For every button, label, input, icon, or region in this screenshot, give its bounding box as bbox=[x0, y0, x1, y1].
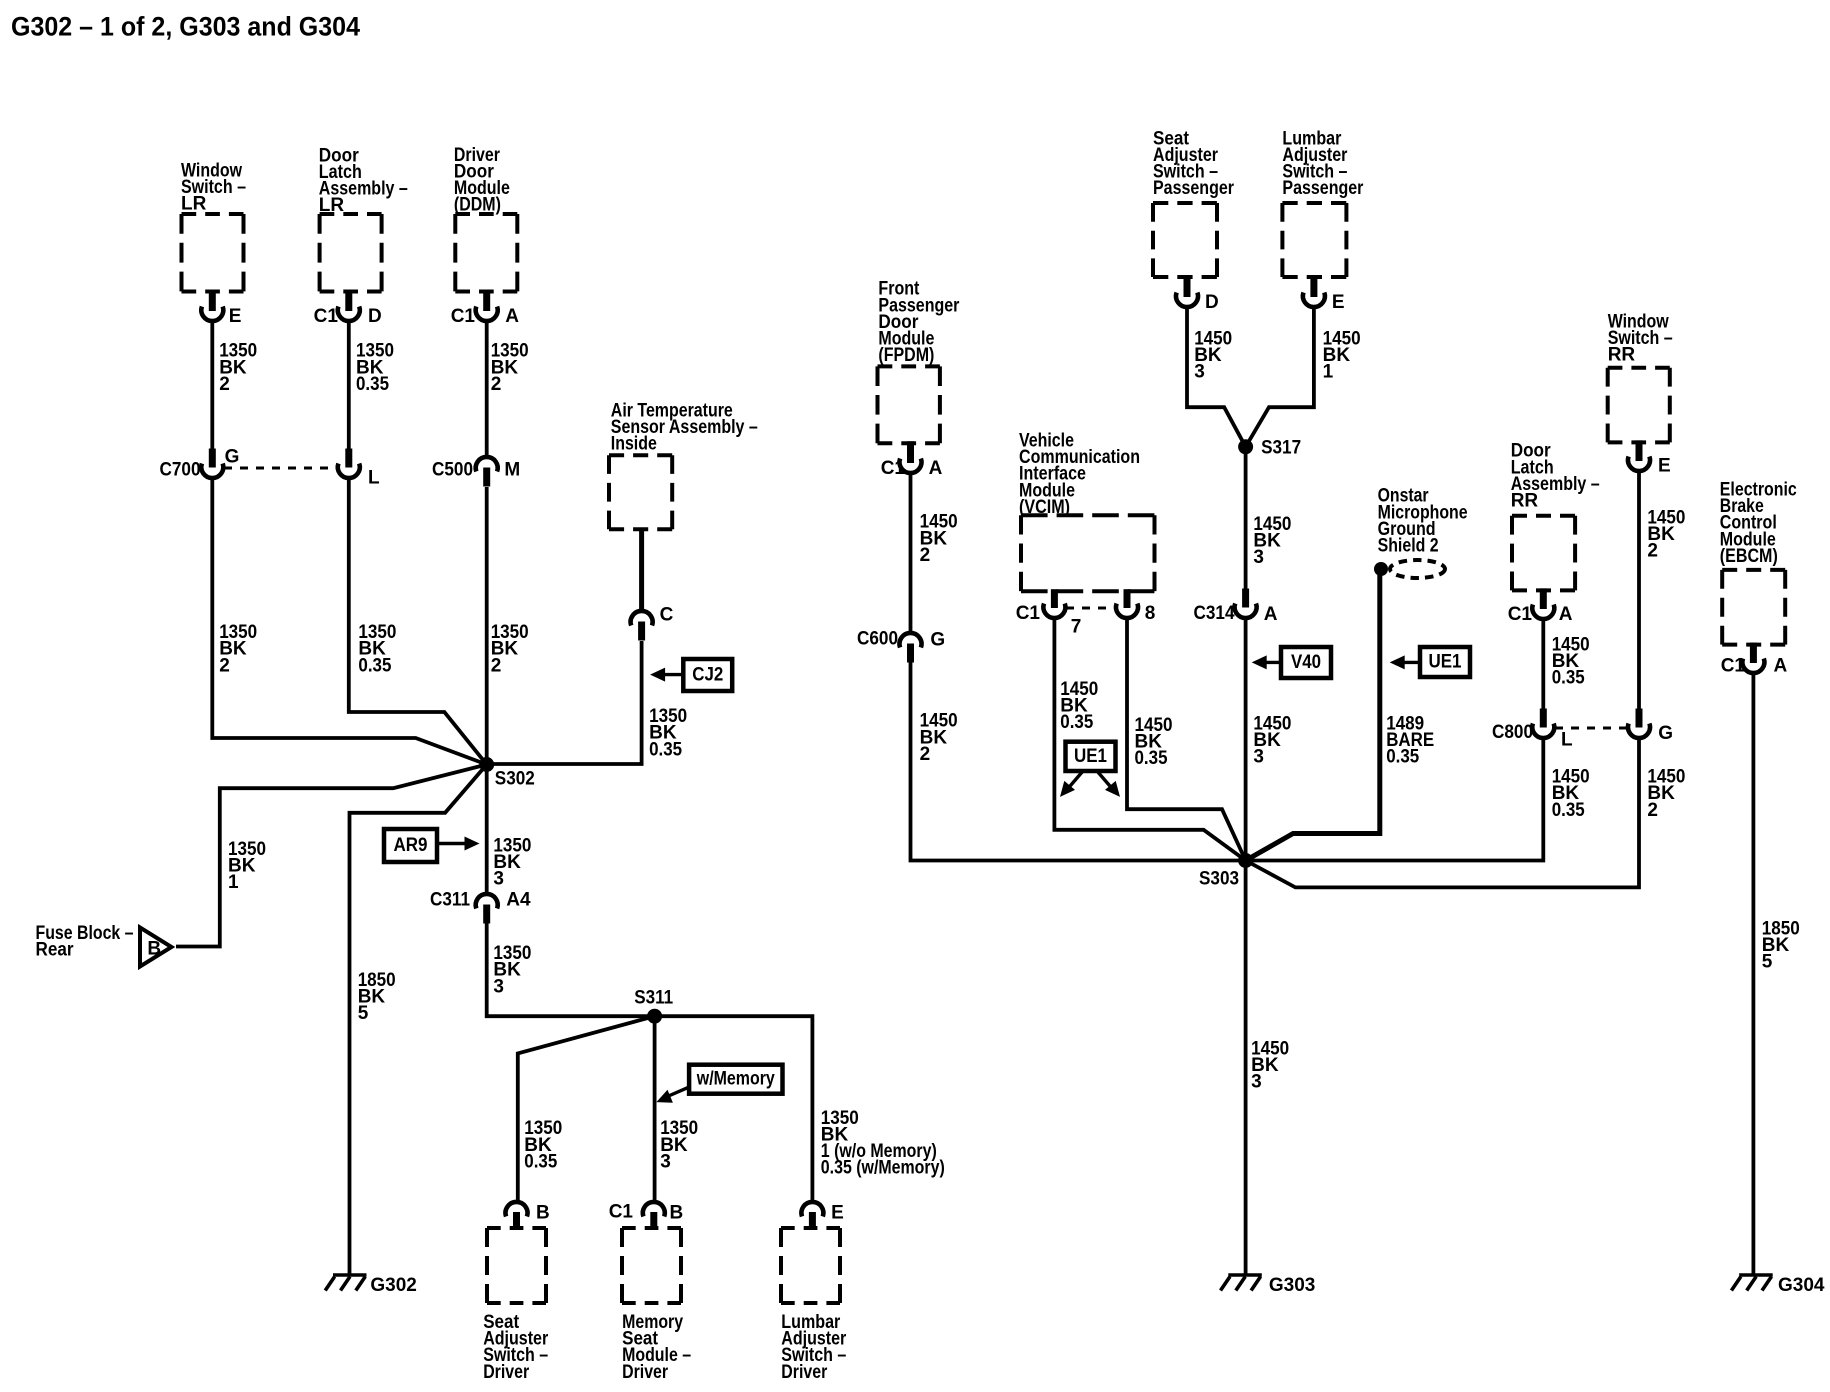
pin D of Seat Adjuster Passenger bbox=[1184, 275, 1191, 297]
module Air Temperature Sensor Assembly - Inside bbox=[609, 455, 672, 529]
svg-text:1: 1 bbox=[1323, 362, 1334, 383]
svg-text:G: G bbox=[225, 446, 240, 467]
module Vehicle Communication Interface Module (VCIM) bbox=[1021, 515, 1155, 591]
wire Door Latch D to L bbox=[347, 323, 351, 451]
pin C1-A of FPDM bbox=[907, 441, 914, 463]
flag AR9 bbox=[384, 829, 437, 862]
svg-text:3: 3 bbox=[493, 869, 504, 890]
module Electronic Brake Control Module (EBCM) bbox=[1722, 570, 1785, 645]
label 1350 BK 2 (below C500) bbox=[491, 622, 529, 676]
title bbox=[11, 12, 360, 42]
svg-text:A: A bbox=[929, 458, 943, 479]
svg-text:5: 5 bbox=[358, 1003, 369, 1024]
svg-text:3: 3 bbox=[1251, 1072, 1262, 1093]
pin C1-D of Door Latch LR bbox=[345, 290, 352, 312]
fuse block - rear terminal B bbox=[140, 928, 172, 967]
ground G302 bbox=[333, 1273, 367, 1276]
svg-text:0.35: 0.35 bbox=[649, 739, 682, 760]
svg-text:LR: LR bbox=[181, 194, 207, 215]
flag UE1 (vcim) bbox=[1066, 742, 1116, 771]
svg-text:3: 3 bbox=[493, 976, 504, 997]
svg-text:S317: S317 bbox=[1261, 437, 1301, 458]
module Seat Adjuster Switch - Driver bbox=[487, 1228, 546, 1303]
svg-text:G: G bbox=[930, 629, 945, 650]
svg-text:w/Memory: w/Memory bbox=[696, 1069, 775, 1090]
pin C1-A of EBCM bbox=[1750, 643, 1757, 663]
connector C314 pin A bbox=[1242, 589, 1249, 608]
svg-text:V40: V40 bbox=[1291, 652, 1321, 673]
ground G304 bbox=[1739, 1273, 1773, 1276]
label 1489 BARE 0.35 bbox=[1386, 713, 1434, 767]
label 1350 BK 2 (window) bbox=[219, 341, 257, 395]
pin E of Lumbar Adjuster Switch Driver bbox=[801, 1202, 823, 1217]
svg-text:0.35: 0.35 bbox=[358, 655, 391, 676]
svg-text:2: 2 bbox=[491, 374, 502, 395]
connector C800 pin L bbox=[1540, 709, 1547, 728]
label 1450 BK 3 (seat pass) bbox=[1194, 328, 1232, 382]
svg-text:C311: C311 bbox=[430, 889, 470, 910]
wire C311 to S311 and on to lumbar branch bbox=[487, 923, 813, 1200]
svg-text:C1: C1 bbox=[1721, 655, 1746, 676]
svg-text:S303: S303 bbox=[1199, 869, 1239, 890]
svg-text:2: 2 bbox=[920, 744, 931, 765]
module Lumbar Adjuster Switch - Passenger bbox=[1282, 203, 1346, 277]
svg-text:RR: RR bbox=[1608, 345, 1636, 366]
wire G to S303 bbox=[1246, 740, 1639, 887]
wire lumbar E to S317 bbox=[1246, 309, 1314, 447]
svg-text:C1: C1 bbox=[451, 306, 476, 327]
svg-text:0.35: 0.35 bbox=[1060, 712, 1093, 733]
wire S303 to G303 bbox=[1244, 861, 1248, 1275]
label 1350 BK 2 (ddm) bbox=[491, 341, 529, 395]
svg-text:0.35: 0.35 bbox=[1552, 800, 1585, 821]
wire S311 to memory seat module bbox=[653, 1016, 657, 1200]
connector C311 pin A4 bbox=[476, 894, 498, 909]
svg-text:E: E bbox=[831, 1202, 844, 1223]
pin E of Window Switch RR bbox=[1636, 440, 1643, 461]
label 1350 BK 3 (above C311) bbox=[493, 835, 531, 889]
svg-text:C600: C600 bbox=[857, 628, 898, 649]
label 1450 BK 3 (G303) bbox=[1251, 1038, 1289, 1092]
label 1450 BK 3 (below C314) bbox=[1253, 713, 1291, 767]
svg-text:2: 2 bbox=[219, 655, 230, 676]
svg-text:2: 2 bbox=[491, 655, 502, 676]
svg-text:G302 – 1 of 2, G303 and G304: G302 – 1 of 2, G303 and G304 bbox=[11, 12, 360, 42]
svg-text:G304: G304 bbox=[1778, 1275, 1825, 1296]
wire fuse block to S302 bbox=[176, 765, 487, 947]
svg-text:L: L bbox=[1561, 729, 1573, 750]
svg-text:1: 1 bbox=[228, 872, 239, 893]
svg-text:3: 3 bbox=[1253, 747, 1264, 768]
svg-text:0.35: 0.35 bbox=[1386, 747, 1419, 768]
wire S311 to seat adjuster switch driver bbox=[518, 1016, 655, 1200]
connector C (air temp) bbox=[631, 611, 653, 626]
label 1350 BK 1 bbox=[228, 839, 266, 893]
label 1850 BK 5 (G304) bbox=[1762, 918, 1800, 972]
flag V40 bbox=[1281, 647, 1331, 678]
pin C1-A of Door Latch RR bbox=[1540, 588, 1547, 609]
label 1350 BK 0.35 (below L) bbox=[358, 622, 396, 676]
svg-text:C: C bbox=[660, 604, 674, 625]
junction S311 bbox=[647, 1009, 662, 1024]
wire DDM A to C500 bbox=[485, 323, 489, 456]
svg-text:A4: A4 bbox=[506, 889, 531, 910]
module Door Latch Assembly - LR bbox=[320, 214, 382, 292]
svg-text:2: 2 bbox=[1647, 800, 1658, 821]
flag w/Memory bbox=[689, 1065, 782, 1094]
svg-text:2: 2 bbox=[219, 374, 230, 395]
svg-text:Inside: Inside bbox=[611, 434, 657, 455]
wire window RR E to G bbox=[1637, 473, 1641, 709]
wire C314 to S303 bbox=[1244, 620, 1248, 861]
svg-text:3: 3 bbox=[1253, 547, 1264, 568]
pin E of Lumbar Adjuster Passenger bbox=[1310, 275, 1317, 297]
svg-text:C500: C500 bbox=[432, 459, 473, 480]
svg-text:G302: G302 bbox=[370, 1275, 416, 1296]
wire Window E to C700 bbox=[210, 323, 214, 451]
svg-text:Driver: Driver bbox=[483, 1362, 530, 1383]
svg-text:C1: C1 bbox=[314, 306, 339, 327]
label 1450 BK 2 (below G) bbox=[1647, 767, 1685, 821]
svg-text:2: 2 bbox=[920, 545, 931, 566]
svg-text:(VCIM): (VCIM) bbox=[1019, 497, 1070, 518]
label 1450 BK 1 (lumbar pass) bbox=[1323, 328, 1361, 382]
label 1350 BK 2 (below C700) bbox=[219, 622, 257, 676]
label 1350 BK 3 (below C311) bbox=[493, 943, 531, 997]
wire C700 to S302 bbox=[212, 480, 486, 765]
svg-text:0.35: 0.35 bbox=[356, 374, 389, 395]
svg-text:0.35: 0.35 bbox=[1135, 748, 1168, 769]
svg-text:RR: RR bbox=[1511, 491, 1539, 512]
label 1450 BK 2 (window RR) bbox=[1647, 508, 1685, 562]
dashed tie C700 G-L bbox=[224, 467, 337, 470]
connector L (C700) bbox=[345, 449, 352, 468]
svg-text:G: G bbox=[1658, 723, 1673, 744]
svg-text:7: 7 bbox=[1071, 616, 1082, 637]
label 1450 BK 2 (fpdm) bbox=[920, 512, 958, 566]
dashed tie VCIM 7-8 bbox=[1066, 607, 1116, 610]
svg-text:B: B bbox=[670, 1202, 684, 1223]
svg-text:C800: C800 bbox=[1492, 722, 1533, 743]
svg-text:D: D bbox=[1205, 292, 1219, 313]
svg-text:Passenger: Passenger bbox=[1282, 178, 1364, 199]
wire VCIM 8 to S303 bbox=[1127, 620, 1246, 861]
svg-text:A: A bbox=[1774, 655, 1788, 676]
wire L to S302 bbox=[349, 480, 487, 765]
svg-text:A: A bbox=[505, 306, 519, 327]
label 1350 BK 1/0.35 (lumbar driver) bbox=[821, 1108, 945, 1179]
wire S302 to C311 bbox=[485, 765, 489, 893]
module Memory Seat Module - Driver bbox=[622, 1228, 681, 1303]
connector C600 pin G bbox=[900, 633, 922, 648]
pin C1-B of Memory Seat Module bbox=[643, 1202, 665, 1217]
pin C1-A of DDM bbox=[483, 290, 490, 312]
wire onstar shield to S303 bbox=[1246, 572, 1380, 861]
junction S302 bbox=[479, 757, 494, 772]
connector C500 pin M bbox=[476, 457, 498, 472]
svg-text:0.35: 0.35 bbox=[524, 1151, 557, 1172]
svg-text:C1: C1 bbox=[1016, 603, 1041, 624]
label 1450 BK 0.35 (vcim 7) bbox=[1060, 679, 1098, 733]
flag UE1 (onstar) bbox=[1420, 647, 1470, 677]
svg-text:M: M bbox=[504, 459, 520, 480]
label 1450 BK 2 (below C600) bbox=[920, 711, 958, 765]
label 1450 BK 3 (above C314) bbox=[1253, 514, 1291, 568]
ground G303 bbox=[1228, 1273, 1262, 1276]
connector G (C800) bbox=[1636, 709, 1643, 728]
label 1350 BK 0.35 (air temp) bbox=[649, 706, 687, 760]
svg-text:G303: G303 bbox=[1269, 1275, 1315, 1296]
module Window Switch - LR bbox=[182, 214, 244, 292]
svg-text:C700: C700 bbox=[160, 459, 201, 480]
onstar microphone ground shield 2 bbox=[1374, 562, 1388, 576]
svg-text:D: D bbox=[368, 306, 382, 327]
svg-text:L: L bbox=[368, 467, 380, 488]
svg-text:UE1: UE1 bbox=[1074, 746, 1107, 767]
label 1350 BK 0.35 (door latch) bbox=[356, 341, 394, 395]
svg-text:B: B bbox=[536, 1202, 550, 1223]
svg-text:A: A bbox=[1559, 604, 1573, 625]
svg-text:Driver: Driver bbox=[781, 1362, 828, 1383]
svg-text:AR9: AR9 bbox=[394, 835, 428, 856]
wire seat adj D to S317 bbox=[1187, 309, 1246, 447]
svg-text:E: E bbox=[1332, 292, 1345, 313]
wire FPDM A to C600 bbox=[909, 475, 913, 631]
connector C700 pin G bbox=[209, 449, 216, 468]
label 1450 BK 0.35 (door latch RR) bbox=[1552, 635, 1590, 689]
svg-text:LR: LR bbox=[319, 195, 345, 216]
wire C800 to S303 bbox=[1246, 740, 1544, 861]
module Window Switch - RR bbox=[1608, 368, 1670, 443]
svg-text:Shield 2: Shield 2 bbox=[1378, 536, 1439, 557]
svg-text:Driver: Driver bbox=[622, 1362, 669, 1383]
wire C to S302 bbox=[490, 641, 642, 764]
svg-text:5: 5 bbox=[1762, 952, 1773, 973]
pin C1-7 of VCIM bbox=[1051, 589, 1058, 608]
label 1450 BK 0.35 (vcim 8) bbox=[1135, 715, 1173, 769]
pin E of Window Switch LR bbox=[209, 290, 216, 312]
module Seat Adjuster Switch - Passenger bbox=[1153, 203, 1217, 277]
label 1850 BK 5 (G302) bbox=[358, 970, 396, 1024]
label 1350 BK 3 (memory seat) bbox=[660, 1118, 698, 1172]
svg-text:C1: C1 bbox=[881, 458, 906, 479]
svg-text:3: 3 bbox=[1194, 362, 1205, 383]
svg-text:8: 8 bbox=[1145, 603, 1156, 624]
svg-text:2: 2 bbox=[1647, 541, 1658, 562]
module Lumbar Adjuster Switch - Driver bbox=[781, 1228, 840, 1303]
label 1350 BK 0.35 (seat adj driver) bbox=[524, 1118, 562, 1172]
svg-text:E: E bbox=[229, 306, 242, 327]
module Door Latch Assembly - RR bbox=[1512, 516, 1575, 591]
svg-text:3: 3 bbox=[660, 1151, 671, 1172]
svg-text:A: A bbox=[1264, 604, 1278, 625]
wire door latch RR A to C800 bbox=[1541, 621, 1545, 709]
wire C500 to S302 bbox=[485, 487, 489, 765]
svg-text:E: E bbox=[1658, 455, 1671, 476]
wire EBCM to G304 bbox=[1752, 675, 1756, 1274]
svg-text:S302: S302 bbox=[495, 768, 535, 789]
wire S302 to G302 bbox=[350, 765, 487, 1275]
pin 8 of VCIM bbox=[1124, 589, 1131, 608]
svg-text:B: B bbox=[147, 938, 161, 959]
module Front Passenger Door Module (FPDM) bbox=[878, 366, 940, 443]
svg-text:(DDM): (DDM) bbox=[454, 195, 501, 216]
svg-text:UE1: UE1 bbox=[1429, 652, 1462, 673]
svg-text:C1: C1 bbox=[1508, 604, 1533, 625]
dashed tie C800 L-G bbox=[1555, 727, 1627, 730]
junction S303 bbox=[1238, 853, 1253, 868]
svg-text:Rear: Rear bbox=[36, 940, 75, 961]
wire C600 to S303 bbox=[911, 662, 1246, 861]
pin B of Seat Adjuster Switch Driver bbox=[506, 1202, 528, 1217]
module Driver Door Module (DDM) bbox=[455, 214, 517, 292]
svg-text:0.35: 0.35 bbox=[1552, 668, 1585, 689]
svg-text:CJ2: CJ2 bbox=[692, 665, 723, 686]
svg-text:C314: C314 bbox=[1194, 603, 1235, 624]
svg-text:Passenger: Passenger bbox=[1153, 178, 1235, 199]
svg-text:S311: S311 bbox=[634, 988, 673, 1009]
wire Air Temp box lead bbox=[639, 529, 644, 609]
flag CJ2 bbox=[683, 659, 732, 691]
label 1450 BK 0.35 (below C800) bbox=[1552, 767, 1590, 821]
svg-text:(EBCM): (EBCM) bbox=[1720, 546, 1778, 567]
svg-text:C1: C1 bbox=[609, 1201, 634, 1222]
wire S317 to C314 bbox=[1244, 447, 1248, 591]
junction S317 bbox=[1238, 439, 1253, 454]
wire VCIM 7 to S303 bbox=[1054, 620, 1245, 861]
svg-text:0.35 (w/Memory): 0.35 (w/Memory) bbox=[821, 1158, 945, 1179]
svg-text:(FPDM): (FPDM) bbox=[878, 345, 934, 366]
